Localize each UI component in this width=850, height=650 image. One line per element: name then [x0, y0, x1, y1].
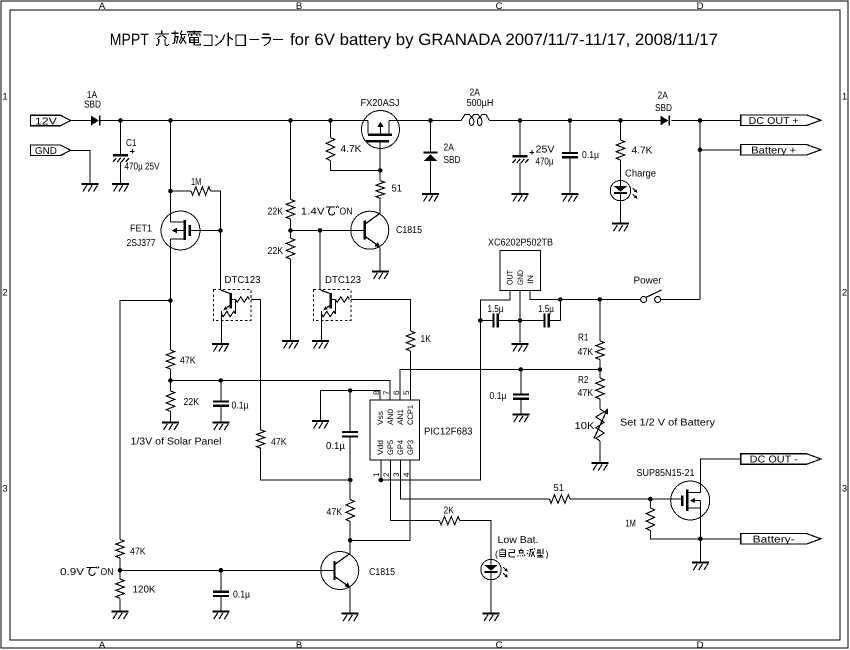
junction R1 top — [598, 297, 603, 302]
resistor 4.7K (FX20ASJ gate pullup) — [326, 138, 334, 161]
junction OUT/1.5u — [478, 318, 483, 323]
transistor U2 FX20ASJ P-MOSFET — [362, 111, 400, 149]
svg-text:5: 5 — [402, 390, 411, 395]
wire 47K to 22K — [170, 369, 172, 391]
svg-text:Vdd: Vdd — [376, 440, 385, 455]
wire 22K junction — [290, 219, 292, 238]
wire pin8 Vss — [321, 391, 381, 421]
svg-text:22K: 22K — [268, 246, 284, 257]
output flag DC OUT + — [741, 115, 821, 125]
ground (C3) — [562, 193, 579, 195]
LED low battery indicator — [481, 559, 501, 579]
svg-text:GP5: GP5 — [386, 439, 395, 455]
resistor 2K — [439, 516, 459, 524]
svg-text:2K: 2K — [444, 506, 455, 517]
svg-text:500µH: 500µH — [467, 98, 494, 109]
svg-text:1M: 1M — [626, 519, 636, 530]
wire DTC123 #2 emitter to ground — [321, 321, 323, 341]
digital transistor DTC123 #1 — [214, 290, 252, 321]
ground (C1) — [112, 183, 129, 185]
ground (0.9V 0.1u) — [212, 611, 229, 613]
resistor 120K — [116, 579, 124, 598]
wire 2K to LED — [460, 521, 491, 560]
svg-text:0.1µ: 0.1µ — [582, 150, 599, 161]
resistor 51 (FX20ASJ gate) — [376, 181, 384, 199]
junction DC OUT+/battery — [698, 118, 703, 123]
wire GND pin — [519, 291, 521, 321]
svg-text:25V: 25V — [536, 145, 555, 156]
wire down to DTC123 #2 — [319, 231, 321, 291]
svg-text:Charge: Charge — [625, 169, 656, 180]
title katakana ラ — [261, 34, 270, 46]
ground (C2) — [512, 193, 529, 195]
svg-text:2A: 2A — [658, 91, 669, 102]
wire FET1 drain down — [170, 239, 172, 301]
junction 0.9V node — [118, 568, 123, 573]
svg-text:AN1: AN1 — [396, 408, 405, 425]
wire 1K to PIC pin5 — [410, 351, 412, 400]
wire SUP drain to DC OUT- — [700, 459, 740, 492]
junction IN/1.5u — [558, 297, 563, 302]
wire R1 top — [599, 300, 601, 342]
capacitor 0.1u (0.9V filter) — [220, 570, 222, 610]
capacitor C1 470u 25V — [120, 121, 122, 184]
svg-text:47K: 47K — [271, 437, 287, 448]
svg-text:AN0: AN0 — [386, 408, 395, 425]
wire IN cap branch — [559, 300, 561, 321]
resistor 47K (GP3 pull) — [346, 500, 354, 522]
wire DTC123 #1 emitter to ground — [221, 321, 223, 344]
svg-text:A: A — [99, 640, 106, 650]
junction rail/D2 — [428, 118, 433, 123]
svg-text:470µ: 470µ — [536, 157, 554, 168]
wire source to ground — [699, 539, 701, 562]
wire R1 to R2 — [599, 360, 601, 379]
svg-text:2A: 2A — [470, 88, 481, 99]
junction rail/FET1 source — [168, 118, 173, 123]
svg-text:1.4V: 1.4V — [301, 207, 325, 218]
wire rail D3 to DC OUT+ — [671, 120, 740, 122]
diode D3 2A SBD (output) — [660, 116, 668, 126]
wire GND flag to ground — [71, 150, 90, 183]
wire C1815#1 emitter to ground — [379, 248, 381, 271]
svg-text:C: C — [496, 640, 503, 650]
svg-text:for 6V battery by GRANADA 2007: for 6V battery by GRANADA 2007/11/7-11/1… — [290, 31, 718, 49]
capacitor 1.5u (OUT side) — [492, 314, 494, 328]
svg-text:SBD: SBD — [444, 155, 461, 166]
wire rail D1 to FX20ASJ — [101, 120, 369, 122]
transistor Q3 C1815 (0.9V detector) — [321, 552, 359, 590]
title katakana ロ — [236, 35, 245, 45]
wire C1815#2 emitter to ground — [349, 588, 351, 613]
wire pin7 AN0 to solar divider rail — [171, 381, 391, 401]
transistor FET1 2SJ377 P-MOSFET — [161, 211, 200, 250]
svg-text:GND: GND — [35, 146, 57, 157]
svg-text:GND: GND — [516, 270, 525, 285]
wire 47K to Vdd rail — [261, 448, 351, 480]
svg-text:4.7K: 4.7K — [632, 146, 653, 157]
svg-text:DTC123: DTC123 — [325, 275, 361, 286]
svg-text:2A: 2A — [444, 143, 455, 154]
wire LED to ground — [490, 580, 492, 613]
svg-text:10K: 10K — [575, 421, 595, 432]
output flag Battery + — [741, 145, 821, 155]
capacitor 0.1u (AN1 filter) — [520, 370, 522, 414]
wire GND pin to ground — [519, 321, 521, 344]
svg-text:2: 2 — [2, 288, 7, 299]
resistor 47K (DTC123 #1 input) — [257, 430, 265, 448]
resistor R1 47K — [596, 341, 604, 360]
capacitor C3 0.1u — [569, 121, 571, 194]
svg-text:R2: R2 — [578, 375, 589, 386]
junction AN1 rail/0.1u — [519, 367, 524, 372]
svg-text:22K: 22K — [184, 397, 200, 408]
IC U3 XC6202P502TB box — [500, 251, 541, 291]
ground (DTC123 #2) — [312, 340, 329, 342]
junction base wire/DTC123 #2 — [318, 228, 323, 233]
svg-text:C1815: C1815 — [396, 225, 422, 236]
wire OUT pin — [480, 291, 510, 321]
svg-text:1/3V of Solar Panel: 1/3V of Solar Panel — [131, 437, 222, 448]
svg-text:22K: 22K — [268, 207, 284, 218]
ground (22K divider) — [282, 340, 299, 342]
resistor 22K (upper) — [286, 199, 294, 219]
transistor Q4 SUP85N15-21 N-MOSFET — [671, 481, 710, 520]
svg-text:1M: 1M — [191, 177, 201, 188]
svg-text:3: 3 — [2, 484, 7, 495]
svg-text:1.5µ: 1.5µ — [488, 304, 504, 315]
wire pin1 Vdd — [380, 460, 382, 480]
svg-text:D: D — [697, 1, 704, 12]
inductor L1 2A 500uH — [456, 115, 474, 121]
wire rail to 4.7K LED resistor — [620, 121, 622, 141]
wire rail to FET1 — [170, 121, 172, 223]
wire 47K GP3 pull wires — [349, 480, 351, 500]
junction FET1 gate node — [218, 228, 223, 233]
wire 1.5u caps rail — [480, 320, 492, 322]
junction GND/1.5u — [518, 318, 523, 323]
svg-text:1: 1 — [842, 92, 847, 103]
ground (D2) — [422, 193, 439, 195]
resistor 22K (solar divider bottom) — [166, 391, 174, 412]
svg-text:2: 2 — [382, 472, 391, 477]
junction rail/battery branch — [698, 118, 703, 123]
title katakana ー (1) — [249, 38, 258, 40]
svg-text:Battery +: Battery + — [751, 145, 796, 156]
wire DTC123 #1 base input — [251, 300, 261, 430]
resistor 47K (0.9V divider top) — [116, 540, 124, 559]
svg-text:47K: 47K — [180, 356, 196, 367]
wire 4.7K branch — [331, 121, 381, 171]
title katakana ト — [228, 33, 233, 46]
svg-text:Power: Power — [634, 276, 663, 287]
diode D1 1A SBD — [91, 116, 99, 126]
wire 1M to gate node — [211, 191, 221, 231]
title katakana ン — [215, 34, 224, 45]
ground (low bat LED) — [483, 613, 500, 615]
junction Vdd rail/0.1u — [348, 478, 353, 483]
junction battery+ — [698, 148, 703, 153]
diode D2 2A SBD (freewheel) — [424, 152, 438, 154]
junction GP3/collector/47K — [348, 538, 353, 543]
svg-text:1: 1 — [2, 92, 7, 103]
title katakana コ — [203, 35, 212, 46]
wire SUP source down — [699, 501, 701, 539]
transistor Q2 C1815 (1.4V detector) — [351, 211, 389, 249]
junction rail/4.7K — [328, 118, 333, 123]
junction FX20ASJ gate/4.7K — [378, 168, 383, 173]
svg-text:(: ( — [495, 549, 498, 559]
wire 12V flag to diode D1 — [71, 120, 91, 122]
svg-text:DC OUT -: DC OUT - — [750, 455, 798, 466]
ground (DTC123 #1) — [212, 343, 229, 345]
svg-text:51: 51 — [392, 184, 403, 195]
svg-text:DTC123: DTC123 — [225, 275, 261, 286]
svg-text:): ) — [546, 549, 549, 559]
output flag DC OUT - — [741, 454, 821, 464]
wire C1815#1 collector to 51 ohm — [379, 198, 381, 213]
wire IN rail to R1/switch — [560, 299, 600, 301]
junction FET1 drain node — [168, 298, 173, 303]
svg-text:0.1µ: 0.1µ — [233, 590, 250, 601]
svg-text:Set 1/2 V of Battery: Set 1/2 V of Battery — [620, 418, 715, 429]
svg-text:47K: 47K — [130, 547, 146, 558]
wire rail inductor to D3 — [490, 120, 661, 122]
wire pin3 GP4 to gate rail — [401, 460, 550, 499]
IC U1 PIC12F683 box — [370, 400, 420, 460]
svg-text:3: 3 — [392, 472, 401, 477]
wire R2 to 10K pot — [599, 399, 601, 409]
svg-text:ON: ON — [101, 567, 114, 578]
resistor 51 (SUP gate) — [549, 495, 570, 503]
wire 51 to gate — [570, 498, 650, 500]
svg-text:FX20ASJ: FX20ASJ — [361, 98, 400, 109]
junction rail/C2 470u — [518, 118, 523, 123]
svg-text:470µ 25V: 470µ 25V — [125, 162, 160, 173]
junction source/battery- — [698, 537, 703, 542]
wire C1815#2 collector — [349, 540, 351, 553]
input flag GND — [30, 145, 70, 156]
junction solar divider — [168, 378, 173, 383]
resistor 1K — [406, 331, 414, 351]
LED charge indicator — [610, 180, 630, 200]
switch Power — [641, 297, 647, 303]
wire rail down to 22K divider — [290, 121, 292, 200]
svg-text:2: 2 — [842, 288, 847, 299]
svg-text:ON: ON — [340, 207, 353, 218]
resistor 4.7K (charge LED) — [616, 140, 624, 160]
wire rail FX20ASJ to D2 branch — [389, 120, 431, 122]
svg-text:Battery-: Battery- — [753, 534, 795, 545]
capacitor 0.1u (solar filter) — [220, 381, 222, 422]
wire 22K lower to ground — [290, 259, 292, 340]
svg-text:0.1µ: 0.1µ — [326, 441, 345, 452]
svg-text:SUP85N15-21: SUP85N15-21 — [637, 468, 695, 479]
capacitor C2 470u 25V — [519, 121, 521, 194]
output flag Battery- — [741, 534, 821, 544]
title kanji 充 — [155, 31, 169, 46]
wire FX20ASJ gate down — [379, 142, 381, 170]
resistor 47K (solar divider top) — [166, 350, 174, 369]
title kanji 放 — [172, 31, 187, 44]
svg-text:C1: C1 — [126, 138, 137, 149]
wire 22K to ground — [170, 411, 172, 421]
junction R1/R2/AN1 — [598, 367, 603, 372]
resistor R2 47K — [596, 378, 604, 399]
wire 10K to ground — [599, 441, 601, 462]
svg-text:C: C — [496, 1, 503, 12]
svg-text:IN: IN — [526, 275, 535, 284]
svg-text:D: D — [697, 640, 704, 650]
svg-text:47K: 47K — [327, 507, 343, 518]
ground (120K) — [112, 611, 129, 613]
junction Vdd — [379, 478, 384, 483]
svg-text:FET1: FET1 — [130, 224, 152, 235]
ground (GND input) — [82, 183, 99, 185]
ground (solar 0.1u) — [212, 422, 229, 424]
junction 0.9V rail/0.1u — [219, 568, 224, 573]
wire DTC123 #2 output to 1K — [351, 300, 411, 332]
wire 120K to ground — [119, 598, 121, 610]
title kanji 電 — [187, 31, 202, 45]
svg-text:3: 3 — [842, 484, 847, 495]
svg-text:R1: R1 — [578, 333, 589, 344]
ground (solar 22K) — [162, 422, 179, 424]
junction solar rail/0.1u — [219, 378, 224, 383]
ground (C1815 #2) — [342, 613, 359, 615]
svg-text:DC OUT +: DC OUT + — [749, 116, 799, 127]
junction rail/22K divider — [288, 118, 293, 123]
wire battery- rail — [700, 538, 740, 540]
svg-text:Low Bat.: Low Bat. — [498, 535, 539, 546]
wire switch to battery+ rail — [661, 299, 700, 301]
wire pin4 GP3 to C1815#2 collector — [350, 460, 410, 540]
title katakana ー (2) — [273, 38, 283, 40]
wire rail to D2 — [430, 121, 432, 152]
digital transistor DTC123 #2 — [314, 290, 352, 321]
svg-text:120K: 120K — [133, 585, 156, 596]
junction rail/C1 — [118, 118, 123, 123]
svg-text:1.5µ: 1.5µ — [538, 304, 554, 315]
svg-text:0.1µ: 0.1µ — [490, 391, 507, 402]
junction FET1 source/1M — [168, 189, 173, 194]
wire 1M wires — [649, 499, 651, 508]
junction Vss/0.1u — [348, 388, 353, 393]
svg-text:7: 7 — [382, 390, 391, 395]
potentiometer 10K — [596, 409, 604, 441]
ground (AN1 filter) — [512, 414, 529, 416]
wire FET1 gate to gate node — [191, 230, 220, 232]
ground (Vss) — [312, 420, 329, 422]
junction rail/C3 0.1u — [568, 118, 573, 123]
svg-text:51: 51 — [554, 483, 565, 494]
ground (C1815 #1) — [372, 271, 389, 273]
wire divider to C1815 #1 base and DTC123 #2 — [291, 230, 364, 232]
junction gate/1M — [648, 497, 653, 502]
svg-text:PIC12F683: PIC12F683 — [424, 427, 473, 438]
ground (XC6202 GND) — [512, 343, 529, 345]
svg-text:6: 6 — [392, 390, 401, 395]
wire pin6 AN1 to battery divider rail — [400, 370, 600, 401]
resistor 1M (SUP gate-source) — [646, 508, 654, 531]
wire LED to ground — [620, 201, 622, 223]
wire battery+ branch — [700, 121, 741, 300]
svg-text:12V: 12V — [35, 116, 57, 127]
wire 47K to node — [119, 558, 121, 579]
wire 51 to FX20ASJ gate node — [379, 171, 381, 181]
svg-text:47K: 47K — [578, 388, 594, 399]
svg-text:GP3: GP3 — [406, 439, 415, 455]
junction rail/4.7K LED — [618, 118, 623, 123]
capacitor 1.5u (IN side) — [543, 314, 545, 328]
svg-text:2SJ377: 2SJ377 — [127, 238, 156, 249]
wire pin2 GP5 to 2K — [391, 460, 440, 521]
capacitor 0.1u (Vss bypass) — [349, 391, 351, 481]
wire rail D2 branch to inductor — [431, 120, 456, 122]
svg-text:47K: 47K — [578, 347, 594, 358]
svg-text:1K: 1K — [421, 334, 432, 345]
svg-text:1: 1 — [372, 472, 381, 477]
junction 22K divider — [288, 228, 293, 233]
svg-text:XC6202P502TB: XC6202P502TB — [488, 238, 553, 249]
svg-text:0.1µ: 0.1µ — [232, 401, 249, 412]
svg-text:SBD: SBD — [84, 100, 101, 111]
wire D2 to ground — [430, 161, 432, 193]
svg-text:MPPT: MPPT — [110, 31, 149, 49]
svg-text:B: B — [296, 640, 302, 650]
svg-text:CCP1: CCP1 — [406, 404, 415, 425]
svg-text:GP4: GP4 — [396, 439, 405, 455]
svg-text:SBD: SBD — [655, 103, 672, 114]
wire IN pin — [530, 291, 560, 300]
wire 4.7K to LED — [620, 160, 622, 180]
wire FET1 drain to dividers — [120, 301, 171, 540]
wire 0.9V node to C1815#2 base — [120, 569, 333, 571]
resistor 22K (lower) — [286, 238, 294, 259]
svg-text:4.7K: 4.7K — [341, 144, 362, 155]
svg-text:C1815: C1815 — [369, 567, 395, 578]
svg-text:OUT: OUT — [506, 270, 515, 285]
svg-text:Vss: Vss — [376, 411, 385, 425]
ground (10K) — [592, 462, 609, 464]
ground (charge LED) — [612, 223, 629, 225]
wire gate node down to DTC123 #1 — [220, 231, 222, 291]
svg-text:B: B — [296, 1, 302, 12]
svg-text:0.9V: 0.9V — [60, 567, 84, 578]
ground (SUP source) — [692, 562, 709, 564]
svg-text:A: A — [99, 1, 106, 12]
wire OUT net down to Vdd rail — [381, 321, 481, 481]
resistor 1M (FET1 gate-source) — [191, 187, 211, 195]
